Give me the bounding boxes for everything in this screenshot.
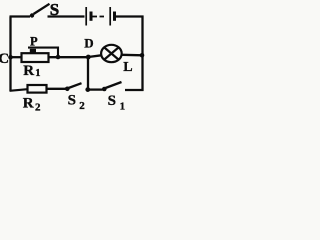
svg-text:2: 2 xyxy=(79,100,85,112)
wire middle right segment xyxy=(49,56,89,58)
svg-text:C: C xyxy=(0,51,9,67)
svg-text:R: R xyxy=(23,63,34,79)
svg-text:S: S xyxy=(108,93,116,109)
battery B (two cells with dashed gap) xyxy=(86,7,114,26)
switch S1 xyxy=(102,82,122,91)
wire top right segment xyxy=(116,15,144,17)
switch S xyxy=(30,4,50,18)
wire R2 to S2 xyxy=(47,88,66,90)
label P xyxy=(30,34,38,48)
node D junction xyxy=(86,55,91,60)
svg-text:1: 1 xyxy=(120,101,126,113)
slider P arm xyxy=(28,48,58,57)
wire D-junction to S1 xyxy=(88,88,103,90)
svg-text:D: D xyxy=(84,35,93,50)
wire D drop vertical xyxy=(87,57,89,90)
node lamp-right junction xyxy=(140,53,145,58)
svg-text:2: 2 xyxy=(35,102,41,114)
label S1 xyxy=(108,93,126,113)
wire middle left segment xyxy=(11,56,23,58)
wire lamp to right xyxy=(122,54,143,57)
svg-text:1: 1 xyxy=(35,68,40,79)
wire D to lamp xyxy=(88,55,101,57)
label R1 xyxy=(23,63,40,79)
svg-text:R: R xyxy=(23,96,34,112)
svg-text:P: P xyxy=(30,34,38,48)
wire left vertical C branch xyxy=(9,17,11,92)
resistor R2 xyxy=(28,85,47,93)
label S xyxy=(50,0,59,19)
label L xyxy=(123,60,132,75)
rheostat R1 body xyxy=(22,53,49,62)
svg-text:S: S xyxy=(68,92,76,108)
label R2 xyxy=(23,96,41,114)
label C xyxy=(0,51,9,67)
label S2 xyxy=(68,92,86,112)
node bottom D junction xyxy=(85,87,90,92)
switch S2 xyxy=(65,83,82,91)
wire bottom left segment xyxy=(10,89,28,91)
wire right vertical xyxy=(141,16,143,92)
wire top middle segment xyxy=(48,15,85,17)
wire top left segment xyxy=(10,15,31,17)
node C junction xyxy=(8,55,13,60)
label D xyxy=(84,35,93,50)
wire S1 to right corner xyxy=(125,89,144,91)
node slider junction xyxy=(56,55,61,60)
lamp L xyxy=(101,45,122,62)
svg-text:L: L xyxy=(123,60,132,75)
